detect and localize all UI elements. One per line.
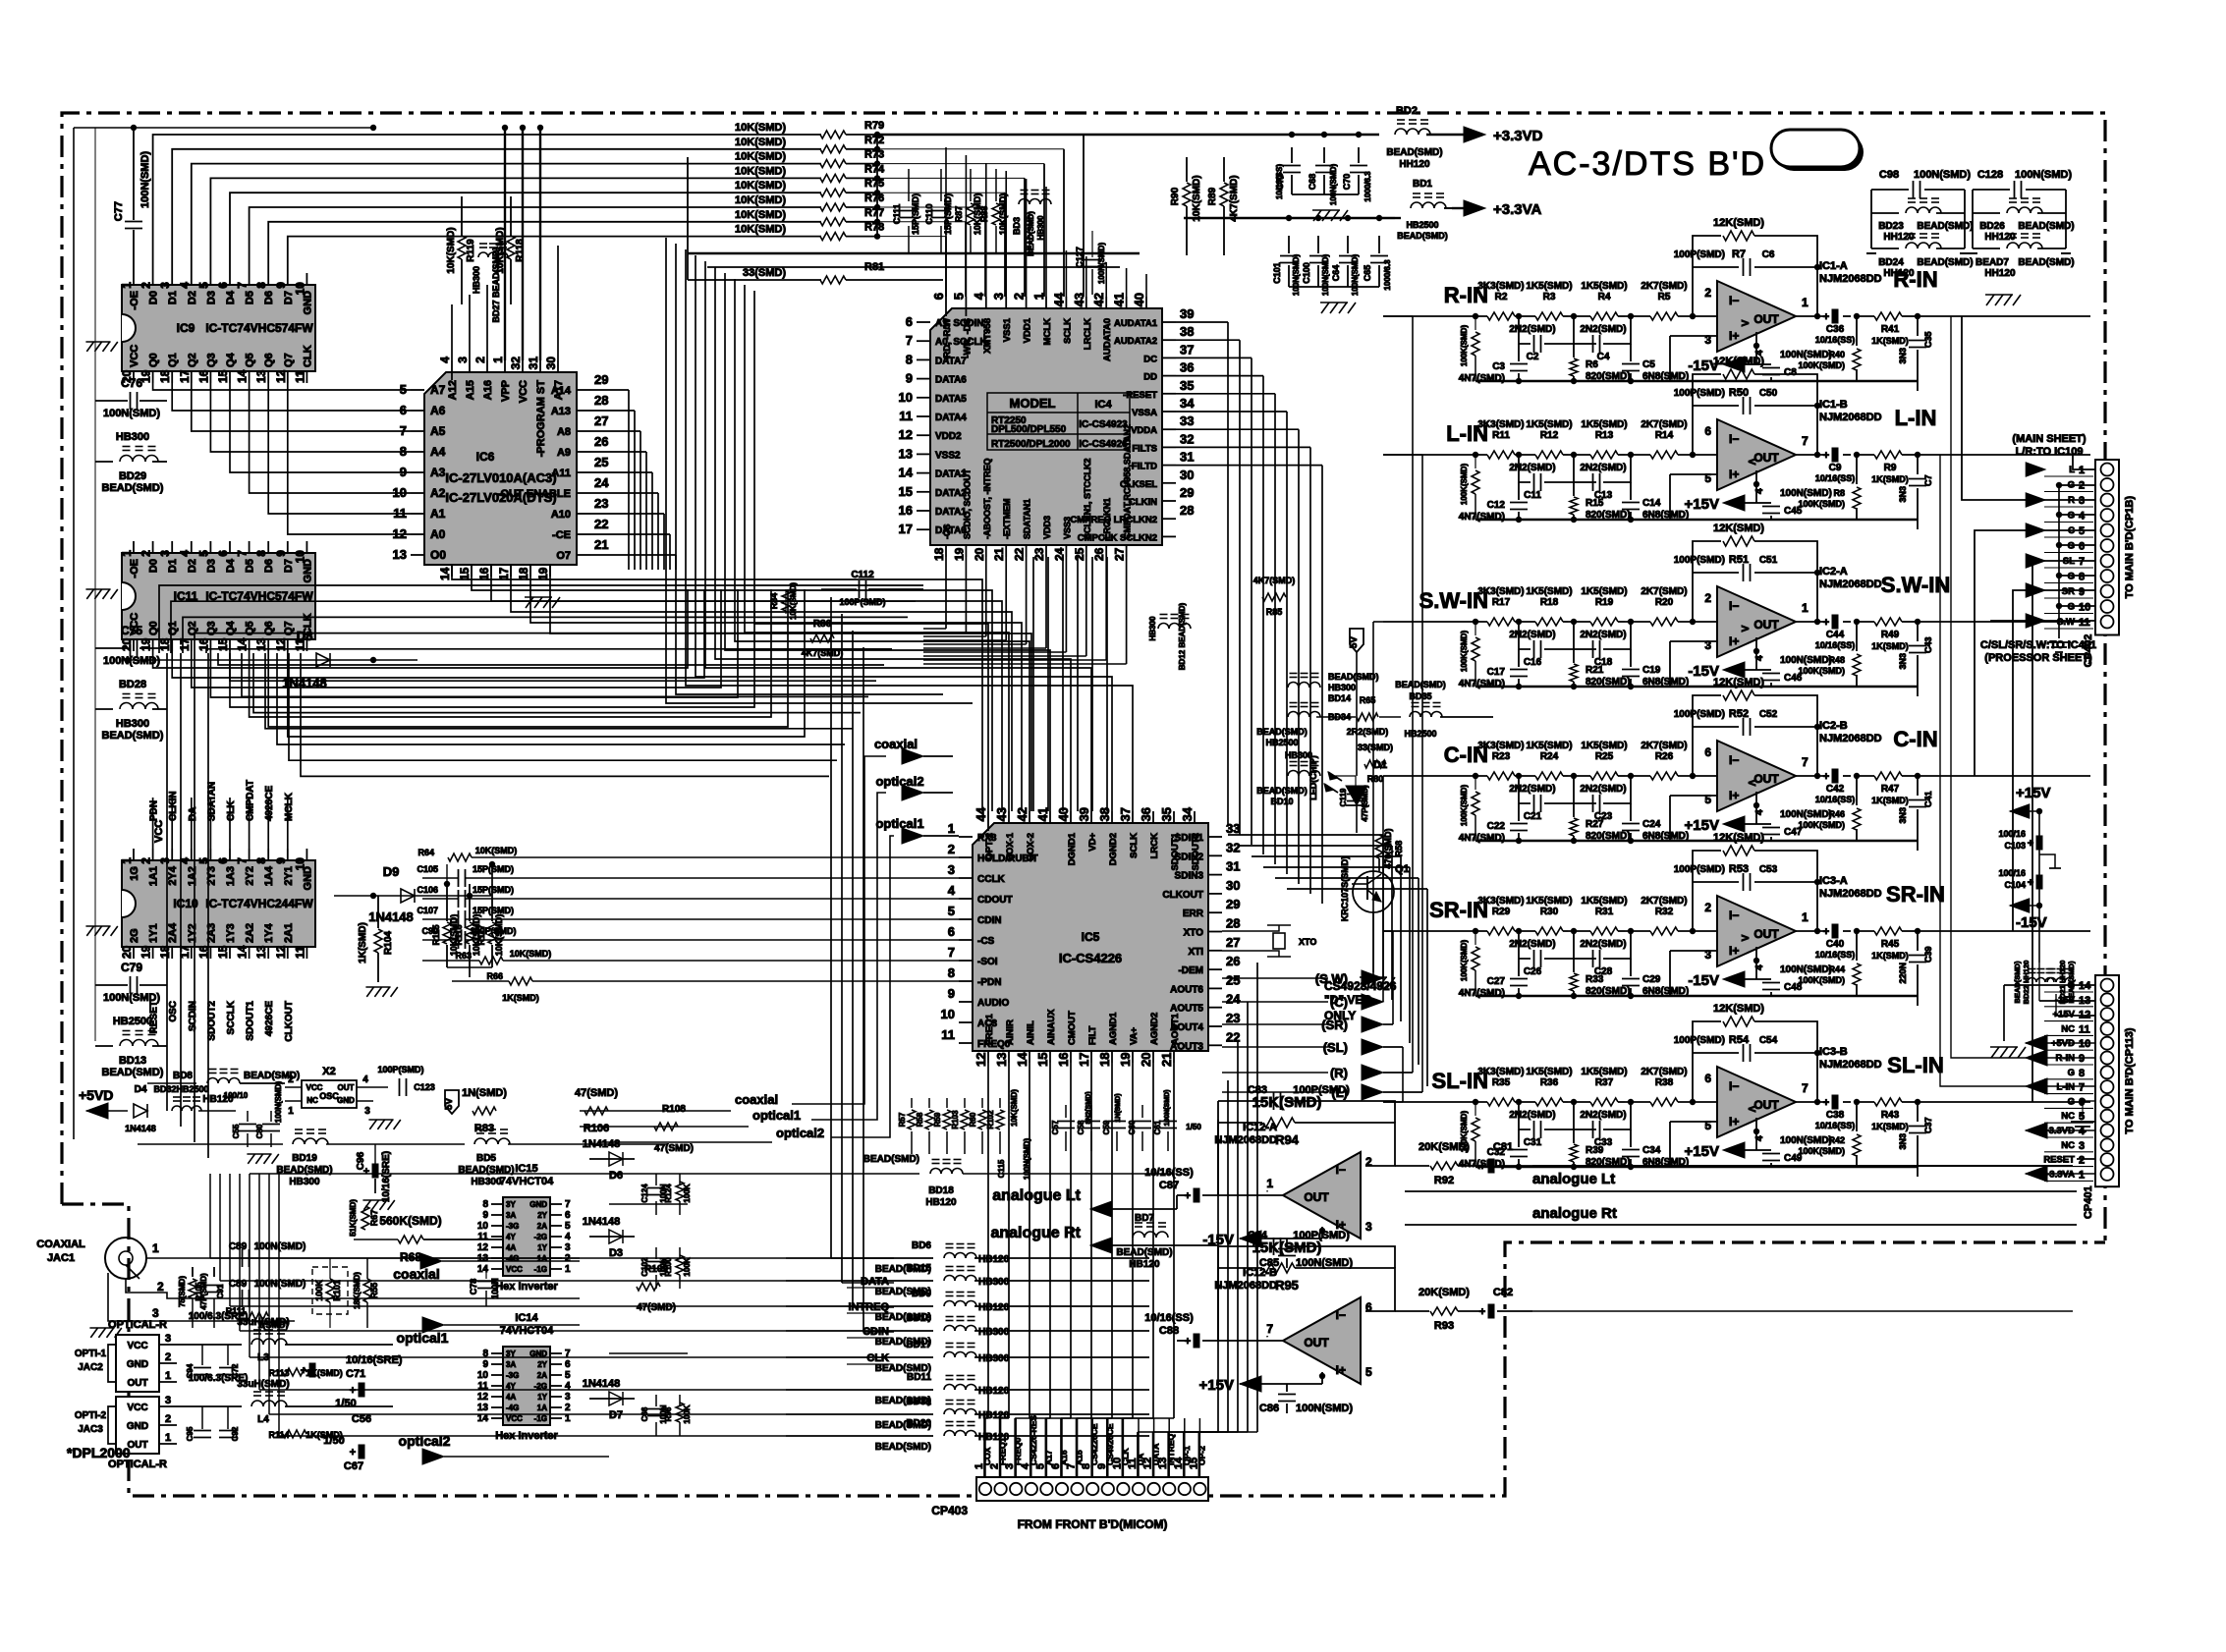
svg-text:2: 2 [1012, 293, 1027, 300]
svg-text:9: 9 [482, 1359, 488, 1370]
svg-text:optical2: optical2 [875, 774, 923, 789]
svg-text:OSC: OSC [319, 1091, 339, 1101]
svg-text:C95: C95 [186, 1426, 195, 1441]
svg-text:R101: R101 [332, 1280, 342, 1301]
svg-text:V: V [1746, 1106, 1756, 1113]
svg-text:C-IN: C-IN [1444, 743, 1488, 767]
svg-text:24: 24 [1052, 547, 1066, 561]
svg-text:1N(SMD): 1N(SMD) [1115, 1093, 1122, 1122]
svg-text:1K(SMD): 1K(SMD) [1871, 1122, 1909, 1131]
svg-text:-CS: -CS [942, 524, 952, 540]
svg-text:SDOUT1: SDOUT1 [246, 1001, 256, 1041]
svg-text:2A4: 2A4 [167, 922, 179, 943]
svg-text:4: 4 [438, 357, 452, 363]
svg-text:R52: R52 [1729, 708, 1749, 720]
svg-text:-OE: -OE [129, 559, 140, 578]
svg-text:V: V [1746, 780, 1756, 787]
svg-text:100K(SMD): 100K(SMD) [1798, 666, 1845, 676]
svg-text:2: 2 [2079, 1155, 2085, 1167]
svg-text:R12: R12 [1540, 430, 1559, 441]
svg-text:V: V [1741, 625, 1752, 632]
svg-text:2N2(SMD): 2N2(SMD) [1580, 463, 1626, 473]
svg-text:R103: R103 [951, 1110, 960, 1129]
svg-text:1Y3: 1Y3 [225, 923, 237, 943]
svg-text:3: 3 [2079, 495, 2085, 507]
svg-text:D8: D8 [297, 629, 313, 643]
svg-text:C2: C2 [1527, 352, 1539, 362]
svg-text:BD2: BD2 [1396, 105, 1418, 117]
svg-text:C11: C11 [1524, 490, 1541, 501]
svg-text:21: 21 [594, 537, 608, 552]
svg-text:15P(SMD): 15P(SMD) [943, 193, 953, 235]
svg-text:HB300: HB300 [289, 1177, 320, 1187]
svg-text:OPTI-2: OPTI-2 [75, 1410, 107, 1421]
svg-text:R86: R86 [813, 619, 832, 630]
svg-text:BD10: BD10 [1270, 797, 1293, 806]
svg-text:VSS1: VSS1 [1002, 317, 1013, 342]
svg-text:10/16(SS): 10/16(SS) [1815, 1121, 1856, 1130]
svg-text:HB2500: HB2500 [176, 1084, 208, 1094]
svg-text:2N2(SMD): 2N2(SMD) [1509, 784, 1555, 795]
svg-text:9: 9 [906, 371, 913, 386]
svg-text:BD29: BD29 [119, 470, 146, 482]
svg-text:R8: R8 [1833, 488, 1845, 498]
svg-text:1: 1 [120, 282, 134, 289]
svg-text:XTI: XTI [1188, 947, 1203, 958]
svg-text:D3: D3 [205, 291, 217, 304]
svg-text:C61: C61 [1153, 1120, 1162, 1134]
svg-text:+: + [1823, 926, 1829, 938]
svg-text:2N2(SMD): 2N2(SMD) [1509, 463, 1555, 473]
svg-text:28: 28 [1226, 916, 1240, 931]
svg-text:8: 8 [948, 965, 955, 980]
svg-text:R-IN: R-IN [1444, 283, 1488, 307]
svg-text:19: 19 [952, 547, 966, 561]
svg-text:3: 3 [165, 1395, 171, 1406]
svg-text:C71: C71 [346, 1368, 365, 1380]
svg-text:C34: C34 [1642, 1145, 1661, 1156]
svg-text:C60: C60 [1128, 1120, 1137, 1134]
svg-text:R41: R41 [1881, 324, 1900, 335]
svg-text:DPL500/DPL550: DPL500/DPL550 [991, 424, 1067, 435]
svg-text:2K7(SMD): 2K7(SMD) [1641, 586, 1687, 597]
svg-text:1: 1 [2079, 465, 2085, 476]
svg-text:SCLK: SCLK [1129, 833, 1140, 858]
svg-text:R74: R74 [864, 163, 885, 175]
svg-text:KRC107S(SMD): KRC107S(SMD) [1340, 856, 1350, 922]
svg-text:31: 31 [1180, 450, 1194, 465]
svg-text:100N(SMD): 100N(SMD) [1097, 243, 1106, 285]
svg-text:2: 2 [139, 550, 153, 557]
svg-text:(PROESSOR SHEET): (PROESSOR SHEET) [1984, 652, 2092, 664]
svg-text:10K(SMD): 10K(SMD) [735, 151, 786, 163]
svg-text:NC: NC [2061, 1140, 2075, 1151]
svg-text:C101: C101 [1272, 262, 1282, 284]
svg-text:2Y: 2Y [537, 1360, 547, 1369]
svg-text:-2G: -2G [534, 1233, 547, 1241]
svg-text:IC1-B: IC1-B [1819, 399, 1848, 411]
svg-text:R37: R37 [1595, 1077, 1614, 1088]
svg-text:GND: GND [337, 1096, 355, 1105]
svg-text:34: 34 [1180, 806, 1195, 821]
svg-text:100N(SMD): 100N(SMD) [1292, 254, 1301, 297]
svg-text:+: + [1823, 1097, 1829, 1109]
svg-text:10K(SMD): 10K(SMD) [735, 165, 786, 177]
svg-text:1: 1 [1802, 601, 1809, 615]
svg-text:VCC: VCC [153, 820, 165, 843]
svg-text:HB300: HB300 [1328, 683, 1356, 692]
svg-text:100N(SMD): 100N(SMD) [103, 408, 160, 419]
svg-text:5V: 5V [1349, 636, 1360, 649]
svg-text:R113: R113 [268, 1368, 289, 1378]
svg-text:O0: O0 [430, 548, 446, 562]
svg-text:C52: C52 [1759, 709, 1778, 720]
svg-text:1: 1 [165, 1432, 171, 1444]
svg-text:analogue Lt: analogue Lt [1532, 1171, 1615, 1187]
svg-text:VSS3: VSS3 [1062, 517, 1072, 539]
svg-text:10K(SMD): 10K(SMD) [1192, 175, 1202, 221]
svg-text:CP401: CP401 [2083, 1185, 2094, 1219]
svg-text:R63: R63 [455, 951, 472, 961]
svg-text:GND: GND [302, 291, 313, 315]
svg-text:COX-2: COX-2 [1026, 833, 1036, 861]
svg-text:100/16: 100/16 [1998, 868, 2026, 878]
svg-text:1K(SMD): 1K(SMD) [1871, 641, 1909, 651]
svg-text:CP402: CP402 [2083, 634, 2094, 668]
svg-text:29: 29 [1226, 897, 1240, 911]
svg-text:17: 17 [178, 637, 192, 651]
svg-text:2A1: 2A1 [283, 923, 295, 943]
svg-text:R73: R73 [864, 149, 884, 161]
svg-text:3Y: 3Y [506, 1200, 516, 1209]
svg-text:FILTD: FILTD [1132, 462, 1157, 472]
svg-text:100K(SMD): 100K(SMD) [1798, 499, 1845, 509]
svg-text:100N(SMD): 100N(SMD) [1780, 488, 1832, 499]
svg-text:BD9: BD9 [912, 1289, 931, 1299]
svg-text:1: 1 [1266, 1177, 1273, 1190]
svg-text:R109: R109 [644, 1264, 668, 1275]
svg-text:G: G [2068, 541, 2075, 552]
svg-text:C22: C22 [1487, 821, 1506, 832]
svg-text:IC-TC74VHC244FW: IC-TC74VHC244FW [205, 897, 313, 910]
svg-text:AC-3/DTS B'D: AC-3/DTS B'D [1529, 145, 1766, 183]
svg-text:20: 20 [120, 637, 134, 651]
svg-text:4: 4 [362, 1074, 368, 1085]
svg-text:38: 38 [1097, 807, 1112, 821]
svg-text:100N(SMD): 100N(SMD) [1329, 164, 1338, 206]
svg-text:C42: C42 [1826, 784, 1845, 795]
svg-text:R11: R11 [1492, 430, 1510, 441]
svg-text:C111: C111 [892, 204, 902, 225]
svg-text:VSS2: VSS2 [935, 450, 961, 461]
svg-text:100P(SMD): 100P(SMD) [1674, 709, 1725, 720]
svg-text:1N4148: 1N4148 [583, 1378, 621, 1390]
svg-text:18: 18 [158, 945, 172, 959]
svg-text:C66: C66 [640, 1406, 649, 1421]
svg-text:C53: C53 [1759, 864, 1778, 875]
svg-text:C8: C8 [1784, 367, 1797, 378]
svg-text:V: V [1741, 319, 1752, 326]
svg-text:15P(SMD): 15P(SMD) [473, 906, 514, 915]
svg-text:I−: I− [1729, 1079, 1739, 1093]
svg-text:2A2: 2A2 [245, 923, 256, 943]
svg-text:3: 3 [991, 293, 1006, 300]
svg-text:+3.3VD: +3.3VD [1493, 128, 1543, 144]
svg-text:4926CE: 4926CE [264, 1001, 275, 1036]
svg-text:BD8: BD8 [173, 1071, 193, 1081]
svg-text:4: 4 [565, 1232, 571, 1242]
svg-text:12: 12 [974, 1053, 988, 1067]
svg-text:2N2(SMD): 2N2(SMD) [1509, 630, 1555, 640]
svg-text:BEAD(SMD): BEAD(SMD) [244, 1071, 300, 1081]
svg-text:9: 9 [482, 1210, 488, 1221]
svg-text:2: 2 [165, 1413, 171, 1425]
svg-text:1K(SMD): 1K(SMD) [1871, 474, 1909, 484]
svg-text:BEAD(SMD): BEAD(SMD) [1917, 221, 1973, 232]
svg-text:G: G [2068, 572, 2075, 582]
svg-text:3: 3 [948, 862, 955, 877]
svg-text:+: + [2028, 838, 2033, 850]
svg-text:3: 3 [158, 550, 172, 557]
svg-text:R85: R85 [1266, 607, 1283, 617]
svg-text:Q1: Q1 [167, 353, 179, 367]
svg-text:10/16(SS): 10/16(SS) [1815, 335, 1856, 345]
svg-text:BEAD(SMD): BEAD(SMD) [1386, 147, 1442, 158]
svg-text:10: 10 [2079, 1038, 2090, 1050]
svg-text:R58: R58 [916, 1112, 924, 1127]
svg-text:2N2(SMD): 2N2(SMD) [1580, 1110, 1626, 1121]
svg-text:HB2500: HB2500 [1265, 738, 1298, 747]
svg-text:HB2500: HB2500 [113, 1016, 152, 1027]
svg-text:BEAD(SMD): BEAD(SMD) [2018, 221, 2074, 232]
svg-text:13: 13 [994, 1053, 1009, 1067]
svg-text:R26: R26 [1655, 751, 1674, 762]
svg-text:29: 29 [1180, 485, 1194, 500]
svg-text:1: 1 [1802, 910, 1809, 924]
svg-text:C90: C90 [421, 926, 438, 936]
svg-text:13: 13 [899, 446, 913, 461]
svg-text:2K7(SMD): 2K7(SMD) [1641, 1067, 1687, 1077]
svg-text:1: 1 [948, 821, 955, 836]
svg-text:A2: A2 [430, 486, 446, 500]
svg-text:IC6: IC6 [476, 450, 495, 464]
svg-text:R19: R19 [1595, 597, 1614, 608]
svg-text:BEAD(SMD): BEAD(SMD) [1256, 727, 1308, 737]
svg-text:38: 38 [1180, 324, 1194, 339]
svg-text:6: 6 [2079, 1096, 2085, 1108]
svg-text:12K(SMD): 12K(SMD) [1713, 1003, 1764, 1015]
svg-text:9: 9 [948, 986, 955, 1001]
svg-text:NJM2068DD: NJM2068DD [1819, 273, 1882, 285]
svg-text:D1: D1 [167, 291, 179, 304]
svg-text:BD31: BD31 [906, 1397, 931, 1407]
svg-text:100K: 100K [683, 1404, 692, 1423]
svg-text:2: 2 [139, 282, 153, 289]
svg-text:4N7(SMD): 4N7(SMD) [1459, 512, 1505, 523]
svg-text:-ABOOST, -INTREQ: -ABOOST, -INTREQ [982, 458, 992, 539]
svg-text:BEAD(SMD): BEAD(SMD) [863, 1154, 919, 1165]
svg-text:C89: C89 [229, 1241, 248, 1252]
svg-text:R32: R32 [1655, 907, 1674, 917]
svg-text:BD14: BD14 [1328, 693, 1351, 703]
svg-text:36: 36 [1139, 807, 1153, 821]
svg-text:VDD1: VDD1 [1023, 317, 1033, 343]
svg-text:33uH(SMD): 33uH(SMD) [237, 1317, 289, 1328]
svg-text:7: 7 [1266, 1322, 1273, 1336]
svg-text:AINIR: AINIR [1005, 1019, 1016, 1045]
svg-text:5: 5 [565, 1221, 571, 1232]
svg-text:12K(SMD): 12K(SMD) [1713, 677, 1764, 688]
svg-text:100P(SMD): 100P(SMD) [1674, 555, 1725, 566]
svg-text:11: 11 [293, 370, 306, 383]
svg-text:SCLKN1, STCCLK2: SCLKN1, STCCLK2 [1083, 458, 1092, 539]
svg-text:100K(SMD): 100K(SMD) [1460, 464, 1469, 506]
svg-text:C104: C104 [2004, 880, 2026, 890]
svg-text:16: 16 [1056, 1053, 1071, 1067]
svg-text:L4: L4 [257, 1414, 269, 1425]
svg-text:2N2(SMD): 2N2(SMD) [1580, 324, 1626, 335]
svg-text:17: 17 [899, 522, 913, 536]
svg-text:33(SMD): 33(SMD) [743, 267, 786, 279]
svg-text:COAXIAL: COAXIAL [36, 1239, 85, 1250]
svg-text:C5: C5 [1642, 359, 1655, 370]
svg-text:6: 6 [2079, 541, 2085, 553]
svg-text:8: 8 [2079, 572, 2085, 583]
svg-text:15: 15 [458, 567, 472, 580]
svg-text:14: 14 [236, 369, 250, 383]
svg-text:R96: R96 [664, 1406, 673, 1421]
svg-text:optical2: optical2 [776, 1126, 824, 1140]
svg-text:R95: R95 [1275, 1278, 1299, 1293]
svg-text:1/50: 1/50 [323, 1435, 344, 1447]
svg-text:2N2(SMD): 2N2(SMD) [1580, 630, 1626, 640]
svg-text:R39: R39 [1586, 1145, 1604, 1156]
svg-text:4A: 4A [506, 1393, 516, 1402]
svg-text:D0: D0 [148, 291, 160, 304]
svg-text:20: 20 [120, 945, 134, 959]
svg-text:I+: I+ [1729, 634, 1739, 648]
svg-text:100N(SMD): 100N(SMD) [1780, 350, 1832, 360]
svg-text:4: 4 [178, 857, 192, 864]
svg-text:optical1: optical1 [752, 1108, 801, 1123]
svg-text:C64: C64 [1331, 265, 1341, 282]
svg-text:7: 7 [1802, 1081, 1809, 1095]
svg-text:X2: X2 [322, 1066, 335, 1077]
svg-text:OP-2: OP-2 [1196, 1446, 1206, 1465]
svg-text:4: 4 [178, 282, 192, 289]
svg-text:3: 3 [565, 1242, 571, 1253]
svg-text:HH120: HH120 [1399, 159, 1430, 170]
svg-text:3: 3 [158, 282, 172, 289]
svg-text:IC9: IC9 [177, 321, 195, 335]
svg-text:C119: C119 [1339, 788, 1348, 806]
svg-text:D6: D6 [609, 1170, 623, 1182]
svg-text:IC-27LV020A(DTS): IC-27LV020A(DTS) [445, 490, 556, 505]
svg-text:1Y1: 1Y1 [148, 923, 160, 943]
svg-text:32: 32 [1180, 431, 1194, 446]
svg-text:47(SMD): 47(SMD) [575, 1087, 618, 1099]
svg-text:VDDA: VDDA [1131, 425, 1157, 436]
svg-text:4: 4 [2079, 511, 2086, 523]
svg-text:+15V: +15V [1685, 1143, 1719, 1160]
svg-text:1K(SMD): 1K(SMD) [1871, 336, 1909, 346]
svg-text:CLK: CLK [866, 1352, 889, 1364]
svg-text:BEAD(SMD): BEAD(SMD) [1116, 1247, 1172, 1258]
svg-text:C31: C31 [1524, 1137, 1542, 1148]
svg-text:10/16(SS): 10/16(SS) [1815, 473, 1856, 483]
svg-text:IC-CS4923: IC-CS4923 [1079, 419, 1128, 430]
svg-text:100N: 100N [490, 1278, 500, 1299]
svg-text:C51: C51 [1759, 555, 1778, 566]
svg-text:R67: R67 [369, 1210, 379, 1227]
svg-text:32: 32 [509, 357, 523, 370]
svg-text:100N(SMD): 100N(SMD) [1321, 254, 1330, 297]
svg-text:5: 5 [1365, 1365, 1372, 1379]
svg-text:A9: A9 [557, 447, 571, 459]
svg-text:100N(SMD): 100N(SMD) [139, 151, 151, 208]
svg-text:1K(SMD): 1K(SMD) [358, 922, 368, 964]
svg-text:-PROGRAM ST: -PROGRAM ST [535, 380, 547, 458]
svg-text:C26: C26 [1524, 966, 1542, 977]
svg-text:D1: D1 [1373, 759, 1387, 771]
svg-text:C58: C58 [1077, 1120, 1085, 1134]
svg-text:I+: I+ [1729, 789, 1739, 802]
svg-text:D1: D1 [167, 559, 179, 573]
svg-text:coaxial: coaxial [393, 1266, 439, 1282]
svg-text:BD13: BD13 [119, 1055, 146, 1067]
svg-text:10K(SMD): 10K(SMD) [735, 122, 786, 134]
svg-text:-15V: -15V [2055, 995, 2076, 1006]
svg-text:I+: I+ [1729, 1115, 1739, 1129]
svg-text:*DPL2000: *DPL2000 [67, 1445, 131, 1460]
svg-text:C36: C36 [1826, 324, 1845, 335]
svg-text:JAC2: JAC2 [78, 1362, 103, 1373]
svg-text:Q0: Q0 [148, 621, 160, 635]
svg-text:SR: SR [2062, 586, 2075, 597]
svg-text:A16: A16 [482, 380, 494, 400]
svg-text:L3: L3 [257, 1352, 269, 1363]
svg-text:16: 16 [477, 567, 491, 580]
svg-text:I−: I− [1729, 294, 1739, 307]
svg-text:1A3: 1A3 [225, 866, 237, 886]
svg-text:HB300: HB300 [978, 1327, 1010, 1338]
svg-text:HH120: HH120 [1883, 268, 1915, 279]
svg-text:1: 1 [2079, 1169, 2085, 1181]
svg-text:C75: C75 [121, 624, 142, 637]
svg-text:9: 9 [274, 857, 288, 864]
svg-text:SCCLK: SCCLK [226, 1000, 237, 1034]
svg-text:2N2(SMD): 2N2(SMD) [1509, 939, 1555, 950]
svg-text:D2: D2 [187, 559, 198, 573]
svg-text:L/R:TO IC109: L/R:TO IC109 [2016, 446, 2084, 458]
svg-text:10/16(SS): 10/16(SS) [1144, 1312, 1194, 1324]
svg-text:9: 9 [2079, 586, 2085, 598]
svg-text:R49: R49 [1881, 630, 1900, 640]
svg-text:A4: A4 [430, 445, 446, 459]
svg-text:8: 8 [2079, 1068, 2085, 1079]
svg-text:TO MAIN B'D(CP1B): TO MAIN B'D(CP1B) [2124, 496, 2136, 599]
svg-text:G: G [2068, 980, 2075, 991]
svg-text:C50: C50 [1759, 388, 1778, 399]
svg-text:100N(SMD): 100N(SMD) [1351, 254, 1360, 297]
svg-text:BEAD(SMD): BEAD(SMD) [2018, 257, 2074, 268]
svg-text:C39: C39 [1923, 946, 1933, 963]
svg-text:-15V: -15V [1688, 972, 1719, 989]
svg-text:6: 6 [216, 282, 230, 289]
svg-text:C67: C67 [344, 1460, 363, 1472]
svg-text:R35: R35 [1492, 1077, 1511, 1088]
svg-text:C128: C128 [1977, 169, 2003, 181]
